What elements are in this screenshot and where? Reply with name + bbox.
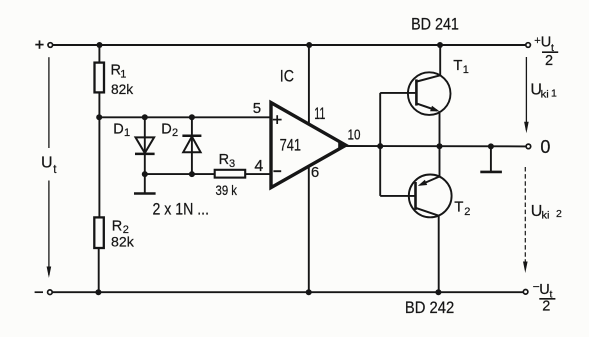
- svg-text:1: 1: [463, 64, 469, 76]
- svg-text:5: 5: [253, 100, 261, 117]
- svg-text:741: 741: [280, 137, 301, 155]
- ground (below D1): [134, 174, 156, 193]
- junction bottom rail / R2: [95, 289, 101, 295]
- label Uki1: [530, 81, 557, 100]
- op-amp apex (pin 10 tip): [338, 140, 347, 151]
- resistor R1: [95, 63, 105, 93]
- wire R1 to node A: [98, 92, 100, 217]
- resistor R2: [94, 217, 104, 248]
- terminal + (top left): [48, 43, 53, 48]
- terminal -Ut/2 (bottom right): [523, 290, 528, 295]
- wire T2 collector to bottom rail: [438, 216, 440, 293]
- measurement arrow Uki1: [524, 57, 529, 133]
- diode D1: [135, 117, 155, 174]
- junction bottom rail / T2 collector: [435, 289, 441, 295]
- junction top rail / R1: [97, 42, 103, 48]
- label -Ut/2 (bottom right): [533, 279, 556, 314]
- svg-text:U: U: [539, 282, 549, 298]
- svg-text:2: 2: [172, 127, 178, 139]
- svg-text:2 x 1N ...: 2 x 1N ...: [153, 200, 210, 218]
- svg-text:1: 1: [551, 87, 557, 99]
- wire pin 6 (op-amp to bottom rail): [308, 166, 310, 292]
- svg-text:2: 2: [556, 208, 562, 220]
- svg-text:U: U: [541, 35, 551, 51]
- svg-text:IC: IC: [280, 67, 294, 85]
- svg-text:82k: 82k: [111, 81, 134, 97]
- op-amp + input marking: [273, 115, 282, 124]
- wire T1 collector to top rail: [439, 45, 441, 75]
- svg-text:T: T: [453, 57, 462, 74]
- svg-text:ki: ki: [541, 209, 549, 221]
- svg-text:10: 10: [348, 127, 361, 144]
- junction top rail / pin 11: [306, 42, 312, 48]
- svg-text:2: 2: [545, 53, 553, 69]
- junction D1 top: [142, 114, 148, 120]
- terminal 0 (output): [526, 144, 531, 149]
- svg-text:T: T: [454, 199, 463, 216]
- svg-text:3: 3: [229, 158, 235, 170]
- junction D2 top: [189, 114, 195, 120]
- svg-text:4: 4: [254, 158, 263, 175]
- terminal +Ut/2 (top right): [526, 43, 531, 48]
- transistor T1 (NPN BD241): [408, 72, 451, 115]
- svg-text:1: 1: [120, 69, 126, 81]
- svg-text:2: 2: [542, 298, 550, 314]
- svg-text:U: U: [41, 154, 53, 171]
- svg-text:R: R: [219, 152, 229, 168]
- wire pin 11 (top rail to op-amp): [308, 45, 310, 124]
- wire T1 emitter to output node: [439, 111, 441, 146]
- terminal - (bottom left): [48, 290, 53, 295]
- resistor R3: [215, 170, 246, 178]
- svg-text:1: 1: [124, 127, 130, 139]
- svg-text:ki: ki: [541, 88, 549, 100]
- label - (bottom left polarity): [35, 291, 43, 293]
- svg-text:BD 242: BD 242: [405, 299, 454, 317]
- junction D2 bottom: [189, 171, 195, 177]
- junction node A (divider midpoint): [96, 114, 102, 120]
- junction output / base drive: [377, 143, 383, 149]
- svg-text:39 k: 39 k: [216, 182, 238, 198]
- wire T2 base stub: [380, 195, 414, 197]
- svg-text:82k: 82k: [111, 234, 135, 250]
- svg-text:R: R: [112, 218, 122, 234]
- svg-text:t: t: [53, 164, 57, 176]
- junction D1 bottom: [142, 171, 148, 177]
- wire T1 base stub: [380, 92, 415, 94]
- svg-text:2: 2: [464, 206, 470, 218]
- label + (top left polarity): [35, 40, 43, 48]
- svg-text:0: 0: [540, 137, 550, 157]
- label Uki2: [531, 203, 562, 221]
- diode D2: [182, 117, 201, 174]
- wire node A to op-amp pin 5: [99, 116, 270, 118]
- wire top rail to R1: [98, 45, 100, 63]
- wire base drive vertical: [379, 93, 381, 196]
- wire R2 to bottom rail: [98, 248, 100, 292]
- label +Ut/2 (top right): [534, 35, 558, 70]
- junction output / ground tap: [488, 143, 494, 149]
- svg-text:6: 6: [311, 164, 319, 181]
- svg-text:11: 11: [314, 104, 325, 123]
- svg-text:D: D: [161, 121, 171, 137]
- svg-text:D: D: [113, 121, 123, 137]
- junction output / emitters: [437, 143, 443, 149]
- wire op-amp output (pin 10) to 0 terminal: [346, 145, 526, 147]
- wire T2 emitter to output node: [439, 146, 441, 176]
- transistor T2 (PNP BD242): [409, 175, 452, 218]
- wire bottom supply rail: [52, 291, 523, 293]
- svg-text:BD 241: BD 241: [411, 16, 459, 34]
- wire top supply rail: [53, 44, 526, 46]
- junction bottom rail / pin 6: [306, 289, 312, 295]
- measurement arrow Uki2 (dashed): [523, 167, 528, 273]
- ground (output reference): [480, 146, 502, 172]
- svg-text:+: +: [534, 35, 540, 47]
- op-amp IC 741: [271, 103, 346, 188]
- measurement arrow Ut (input voltage): [47, 57, 52, 278]
- wire lower node (D1-D2-R3): [145, 173, 215, 175]
- op-amp - input marking: [273, 170, 281, 172]
- junction top rail / T1 collector: [437, 42, 443, 48]
- wire R3 to op-amp pin 4: [245, 173, 270, 175]
